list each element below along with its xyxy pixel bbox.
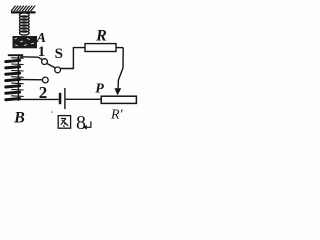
svg-text:B: B <box>13 110 25 127</box>
svg-text:8: 8 <box>76 112 86 134</box>
svg-text:2: 2 <box>39 83 48 102</box>
svg-text:R: R <box>95 27 107 44</box>
svg-text:S: S <box>55 46 63 62</box>
svg-text:1: 1 <box>38 44 46 60</box>
svg-text:A: A <box>36 31 46 46</box>
svg-text:R′: R′ <box>110 108 124 123</box>
svg-text:P: P <box>95 81 104 96</box>
